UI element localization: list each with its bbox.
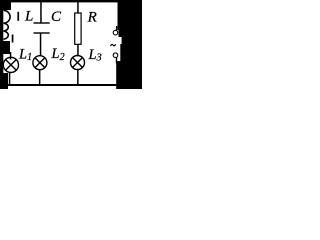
svg-text:C: C (51, 9, 62, 25)
svg-text:R: R (87, 9, 97, 25)
svg-text:L: L (24, 8, 33, 24)
